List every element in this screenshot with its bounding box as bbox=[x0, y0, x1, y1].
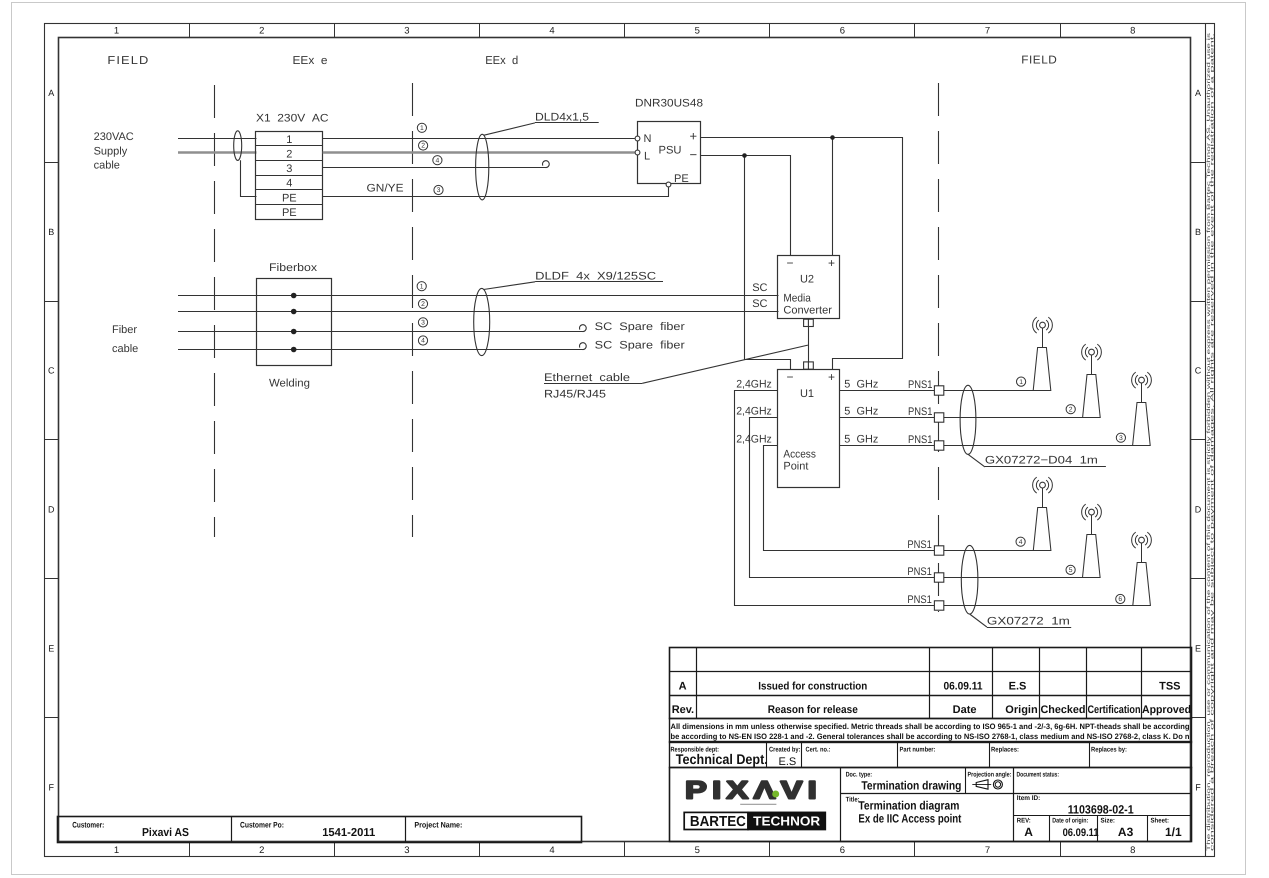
svg-text:E: E bbox=[1195, 643, 1201, 653]
wire branch - to U1 bbox=[745, 156, 791, 371]
svg-text:Reason for release: Reason for release bbox=[768, 704, 858, 716]
fiber number 3 bbox=[418, 318, 427, 327]
svg-text:5 GHz: 5 GHz bbox=[844, 406, 878, 418]
svg-text:A: A bbox=[48, 88, 54, 98]
svg-text:DLDF 4x X9/125SC: DLDF 4x X9/125SC bbox=[535, 271, 656, 283]
wire U1 2,4GHz port1 to PNS1 #6 and antenna 6 bbox=[735, 391, 1151, 606]
antenna 2 bbox=[1082, 344, 1102, 417]
svg-text:PE: PE bbox=[282, 192, 297, 204]
svg-text:F: F bbox=[1195, 782, 1201, 792]
svg-text:GN/YE: GN/YE bbox=[367, 183, 404, 195]
svg-text:Certification: Certification bbox=[1088, 704, 1141, 716]
antenna 5 bbox=[1082, 504, 1102, 577]
svg-text:REV:: REV: bbox=[1017, 818, 1031, 825]
svg-text:SC: SC bbox=[752, 298, 767, 310]
wire U1 5GHz port3 to PNS1 #3 and antenna 3 bbox=[840, 445, 1151, 447]
svg-text:−: − bbox=[690, 147, 698, 162]
svg-text:4: 4 bbox=[436, 157, 440, 164]
svg-text:A: A bbox=[679, 681, 687, 693]
PNS1 bulkhead connector 6 bbox=[934, 601, 943, 610]
zone boundary dashed line FIELD/EEx e bbox=[214, 85, 216, 537]
junction dot - bbox=[742, 153, 747, 158]
PNS1 bulkhead connector 2 bbox=[934, 413, 943, 422]
svg-text:F: F bbox=[48, 782, 54, 792]
svg-text:3: 3 bbox=[437, 187, 441, 194]
wire supply PE to X1 PE bbox=[241, 160, 257, 196]
svg-text:DNR30US48: DNR30US48 bbox=[635, 98, 703, 110]
svg-text:Media: Media bbox=[783, 292, 811, 304]
svg-text:06.09.11: 06.09.11 bbox=[1063, 827, 1099, 839]
antenna 4 bbox=[1033, 477, 1053, 550]
fiber number 4 bbox=[418, 336, 427, 345]
svg-text:Approved: Approved bbox=[1142, 704, 1191, 716]
svg-text:BARTEC: BARTEC bbox=[690, 814, 746, 830]
wire U1 2,4GHz port3 to PNS1 #4 and antenna 4 bbox=[764, 446, 1051, 551]
svg-text:Sheet:: Sheet: bbox=[1151, 818, 1170, 825]
svg-text:FIELD: FIELD bbox=[1021, 55, 1057, 67]
svg-text:4: 4 bbox=[549, 26, 554, 37]
svg-text:2,4GHz: 2,4GHz bbox=[736, 379, 772, 391]
svg-text:PNS1: PNS1 bbox=[907, 539, 932, 551]
label 230VAC Supply cable bbox=[94, 131, 134, 172]
svg-text:5 GHz: 5 GHz bbox=[844, 379, 878, 391]
customer strip bbox=[58, 816, 582, 843]
PNS1 bulkhead connector 4 bbox=[934, 546, 943, 555]
svg-text:6: 6 bbox=[1118, 596, 1122, 603]
svg-text:1: 1 bbox=[114, 26, 119, 37]
antenna number 4 bbox=[1016, 537, 1025, 546]
svg-text:Customer:: Customer: bbox=[72, 821, 104, 830]
svg-text:B: B bbox=[1195, 227, 1201, 237]
svg-text:Ex de IIC Access point: Ex de IIC Access point bbox=[858, 812, 961, 826]
svg-text:Point: Point bbox=[783, 461, 808, 473]
svg-text:EEx e: EEx e bbox=[293, 55, 328, 67]
svg-text:RJ45/RJ45: RJ45/RJ45 bbox=[544, 389, 606, 401]
svg-text:6: 6 bbox=[840, 26, 845, 37]
svg-text:Replaces by:: Replaces by: bbox=[1091, 747, 1127, 754]
svg-text:Welding: Welding bbox=[269, 378, 310, 390]
antenna 6 bbox=[1132, 532, 1152, 605]
svg-text:Customer Po:: Customer Po: bbox=[240, 821, 284, 830]
PNS1 bulkhead connector 5 bbox=[934, 573, 943, 582]
svg-text:+: + bbox=[690, 129, 698, 144]
svg-text:+: + bbox=[828, 370, 835, 384]
svg-text:TECHNOR: TECHNOR bbox=[753, 814, 821, 829]
label DLD4x1,5 with leader bbox=[484, 112, 599, 136]
title block: tolerances note bbox=[670, 719, 1192, 743]
svg-text:Ethernet cable: Ethernet cable bbox=[544, 372, 630, 384]
svg-text:8: 8 bbox=[1130, 845, 1135, 856]
wire fiber 2 to U2 SC bbox=[178, 311, 779, 313]
title block: revision table bbox=[669, 647, 1192, 718]
antenna 3 bbox=[1132, 372, 1152, 445]
zone boundary dashed line EEx e/EEx d bbox=[412, 83, 414, 537]
label DLDF 4x X9/125SC with leader bbox=[484, 271, 664, 290]
conductor number 3 bbox=[434, 185, 443, 194]
svg-text:TSS: TSS bbox=[1159, 681, 1180, 693]
svg-text:E: E bbox=[48, 643, 54, 653]
svg-text:5: 5 bbox=[1069, 567, 1073, 574]
wire fiber 1 to U2 SC bbox=[178, 295, 779, 297]
fiber number 2 bbox=[418, 299, 427, 308]
svg-text:All dimensions in mm unless ot: All dimensions in mm unless otherwise sp… bbox=[671, 722, 1190, 731]
svg-text:Issued for construction: Issued for construction bbox=[758, 681, 867, 693]
wire ethernet RJ45/RJ45 bbox=[808, 327, 810, 362]
svg-text:Date: Date bbox=[953, 704, 977, 716]
svg-text:2: 2 bbox=[259, 845, 264, 856]
svg-text:A: A bbox=[1024, 825, 1033, 839]
BARTEC TECHNOR logo bbox=[684, 812, 825, 830]
svg-text:Access: Access bbox=[783, 448, 816, 460]
svg-text:2: 2 bbox=[421, 301, 425, 308]
svg-text:PE: PE bbox=[674, 173, 689, 185]
wire X1.2 to PSU L (grey) bbox=[323, 151, 635, 154]
wire supply L1 to X1 terminal 1 bbox=[178, 138, 257, 140]
svg-text:Converter: Converter bbox=[783, 304, 832, 316]
svg-text:3: 3 bbox=[1119, 435, 1123, 442]
media converter U2 bbox=[778, 256, 840, 319]
svg-text:Replaces:: Replaces: bbox=[991, 747, 1019, 754]
svg-text:Origin: Origin bbox=[1005, 704, 1038, 716]
svg-text:C: C bbox=[48, 366, 55, 376]
svg-text:5: 5 bbox=[695, 845, 700, 856]
svg-text:cable: cable bbox=[94, 160, 120, 172]
wire branch + to U2 bbox=[832, 138, 834, 256]
svg-text:1: 1 bbox=[1019, 379, 1023, 386]
PNS1 bulkhead connector 3 bbox=[934, 441, 943, 450]
conductor number 4 bbox=[433, 156, 442, 165]
label Fiber cable bbox=[112, 324, 138, 355]
svg-text:B: B bbox=[48, 227, 54, 237]
svg-text:Created by:: Created by: bbox=[769, 747, 801, 754]
svg-text:4: 4 bbox=[286, 178, 292, 190]
cable DLDF sheath ellipse bbox=[474, 288, 490, 355]
svg-text:Supply: Supply bbox=[94, 146, 128, 158]
wire PSU + bus bbox=[700, 138, 902, 371]
svg-text:PIXΛVI: PIXΛVI bbox=[685, 776, 822, 804]
antenna 1 bbox=[1033, 317, 1053, 390]
svg-text:PNS1: PNS1 bbox=[908, 434, 933, 446]
U1 RJ45 connector bbox=[804, 362, 814, 369]
svg-text:cable: cable bbox=[112, 343, 138, 355]
antenna cable sheath ellipse (group 1) bbox=[960, 385, 976, 454]
svg-text:4: 4 bbox=[549, 845, 554, 856]
svg-text:E.S: E.S bbox=[1009, 681, 1027, 693]
svg-text:Size:: Size: bbox=[1101, 818, 1116, 825]
antenna number 2 bbox=[1066, 405, 1075, 414]
antenna number 5 bbox=[1066, 565, 1075, 574]
power supply PSU bbox=[635, 122, 700, 187]
wire U1 5GHz port1 to PNS1 #1 and antenna 1 bbox=[840, 390, 1051, 392]
svg-text:PSU: PSU bbox=[659, 145, 682, 157]
svg-text:Doc. type:: Doc. type: bbox=[846, 772, 873, 779]
svg-text:+: + bbox=[828, 256, 835, 270]
svg-text:D: D bbox=[48, 505, 55, 515]
svg-text:2: 2 bbox=[421, 143, 425, 150]
label GX07272 1m with leader bbox=[970, 614, 1072, 628]
svg-text:PNS1: PNS1 bbox=[908, 379, 933, 391]
svg-text:C: C bbox=[1195, 366, 1202, 376]
U2 RJ45 connector bbox=[804, 319, 814, 326]
svg-text:1: 1 bbox=[420, 283, 424, 290]
svg-text:4: 4 bbox=[1019, 539, 1023, 546]
svg-text:SC: SC bbox=[752, 282, 767, 294]
svg-text:−: − bbox=[786, 370, 793, 384]
supply cable sheath ellipse bbox=[234, 131, 242, 161]
svg-text:Date of origin:: Date of origin: bbox=[1052, 818, 1088, 825]
svg-text:1103698-02-1: 1103698-02-1 bbox=[1068, 803, 1134, 817]
zone boundary dashed line EEx d/FIELD bbox=[938, 83, 940, 612]
svg-text:Fiberbox: Fiberbox bbox=[269, 262, 318, 274]
antenna number 3 bbox=[1116, 433, 1125, 442]
conductor number 2 bbox=[419, 141, 428, 150]
svg-text:PE: PE bbox=[282, 207, 297, 219]
PNS1 bulkhead connector 1 bbox=[934, 386, 943, 395]
svg-text:FIELD: FIELD bbox=[107, 55, 149, 67]
antenna number 1 bbox=[1017, 377, 1026, 386]
svg-text:−: − bbox=[786, 256, 793, 270]
svg-text:3: 3 bbox=[404, 26, 409, 37]
wire PSU - to U2 bbox=[700, 156, 790, 256]
svg-text:230VAC: 230VAC bbox=[94, 131, 134, 143]
svg-text:A: A bbox=[1195, 88, 1201, 98]
svg-text:1: 1 bbox=[286, 134, 292, 146]
cable DLD4x1,5 sheath ellipse bbox=[476, 134, 489, 200]
svg-text:6: 6 bbox=[840, 845, 845, 856]
svg-text:U1: U1 bbox=[800, 388, 814, 400]
svg-text:N: N bbox=[644, 133, 652, 145]
svg-text:PNS1: PNS1 bbox=[908, 406, 933, 418]
svg-text:Project Name:: Project Name: bbox=[414, 821, 462, 830]
wire fiber 4 spare bbox=[178, 349, 583, 351]
label Ethernet cable RJ45/RJ45 with leader bbox=[544, 345, 808, 400]
svg-text:U2: U2 bbox=[800, 274, 814, 286]
svg-text:X1 230V AC: X1 230V AC bbox=[256, 113, 329, 125]
title block: responsible dept row bbox=[670, 742, 1192, 769]
svg-text:Cert. no.:: Cert. no.: bbox=[806, 747, 831, 754]
title block: logo and title cells bbox=[670, 767, 1192, 841]
svg-text:Termination drawing: Termination drawing bbox=[861, 779, 961, 793]
svg-text:SC Spare fiber: SC Spare fiber bbox=[595, 340, 685, 352]
svg-text:be according to NS-EN ISO 228-: be according to NS-EN ISO 228-1 and -2. … bbox=[671, 732, 1190, 741]
svg-text:1: 1 bbox=[420, 125, 424, 132]
svg-text:2: 2 bbox=[259, 26, 264, 37]
antenna cable sheath ellipse (group 2) bbox=[961, 545, 978, 614]
fiber number 1 bbox=[417, 282, 426, 291]
svg-text:7: 7 bbox=[985, 845, 990, 856]
svg-text:considered a breach of copyrig: considered a breach of copyright and may… bbox=[1210, 33, 1216, 851]
svg-text:06.09.11: 06.09.11 bbox=[944, 681, 983, 693]
wire U1 2,4GHz port2 to PNS1 #5 and antenna 5 bbox=[750, 418, 1101, 578]
wire supply N (grey) to X1 terminal 2 bbox=[178, 151, 257, 154]
svg-text:DLD4x1,5: DLD4x1,5 bbox=[535, 112, 589, 124]
antenna number 6 bbox=[1116, 594, 1125, 603]
wire X1.3 spare with curl bbox=[323, 167, 546, 169]
svg-text:2,4GHz: 2,4GHz bbox=[736, 406, 772, 418]
svg-text:GX07272−D04 1m: GX07272−D04 1m bbox=[985, 455, 1098, 467]
svg-text:Rev.: Rev. bbox=[672, 704, 694, 716]
svg-text:7: 7 bbox=[985, 26, 990, 37]
svg-text:D: D bbox=[1195, 505, 1202, 515]
svg-text:PNS1: PNS1 bbox=[907, 594, 932, 606]
svg-text:Checked: Checked bbox=[1041, 704, 1086, 716]
terminal block X1 230V AC bbox=[256, 113, 329, 220]
svg-text:1: 1 bbox=[114, 845, 119, 856]
label GX07272-D04 1m with leader bbox=[968, 454, 1106, 467]
PIXAVI logo bbox=[685, 776, 822, 804]
svg-text:PNS1: PNS1 bbox=[907, 566, 932, 578]
svg-text:4: 4 bbox=[421, 338, 425, 345]
svg-text:3: 3 bbox=[404, 845, 409, 856]
svg-text:Fiber: Fiber bbox=[112, 324, 137, 336]
svg-text:L: L bbox=[644, 151, 650, 163]
svg-text:1/1: 1/1 bbox=[1165, 825, 1182, 839]
svg-text:E.S: E.S bbox=[779, 756, 797, 768]
svg-text:SC Spare fiber: SC Spare fiber bbox=[595, 321, 685, 333]
svg-text:5 GHz: 5 GHz bbox=[844, 434, 878, 446]
svg-text:2,4GHz: 2,4GHz bbox=[736, 434, 772, 446]
svg-text:A3: A3 bbox=[1118, 825, 1134, 839]
svg-text:2: 2 bbox=[286, 148, 292, 160]
wire X1.1 to PSU N bbox=[323, 138, 635, 140]
fiberbox with welds bbox=[257, 262, 332, 390]
svg-text:3: 3 bbox=[421, 320, 425, 327]
svg-text:5: 5 bbox=[695, 26, 700, 37]
wire fiber 3 spare bbox=[178, 331, 583, 333]
svg-text:Projection angle:: Projection angle: bbox=[968, 772, 1012, 779]
svg-text:Termination diagram: Termination diagram bbox=[858, 799, 959, 813]
svg-text:Pixavi AS: Pixavi AS bbox=[142, 827, 189, 839]
access point U1 bbox=[778, 370, 840, 488]
svg-text:1541-2011: 1541-2011 bbox=[322, 827, 376, 839]
svg-text:8: 8 bbox=[1130, 26, 1135, 37]
wire U1 5GHz port2 to PNS1 #2 and antenna 2 bbox=[840, 417, 1101, 419]
svg-text:Item ID:: Item ID: bbox=[1017, 795, 1041, 802]
svg-text:Part number:: Part number: bbox=[900, 747, 936, 754]
conductor number 1 bbox=[417, 123, 426, 132]
svg-text:Technical Dept.: Technical Dept. bbox=[676, 751, 768, 767]
svg-text:Document status:: Document status: bbox=[1017, 772, 1060, 779]
svg-text:EEx d: EEx d bbox=[485, 55, 518, 67]
svg-text:3: 3 bbox=[286, 163, 292, 175]
svg-text:GX07272 1m: GX07272 1m bbox=[987, 616, 1070, 628]
svg-text:2: 2 bbox=[1069, 406, 1073, 413]
first angle projection symbol bbox=[972, 780, 1002, 790]
wire X1.PE to PSU PE (GN/YE) bbox=[323, 187, 669, 196]
junction dot + bbox=[830, 135, 835, 140]
